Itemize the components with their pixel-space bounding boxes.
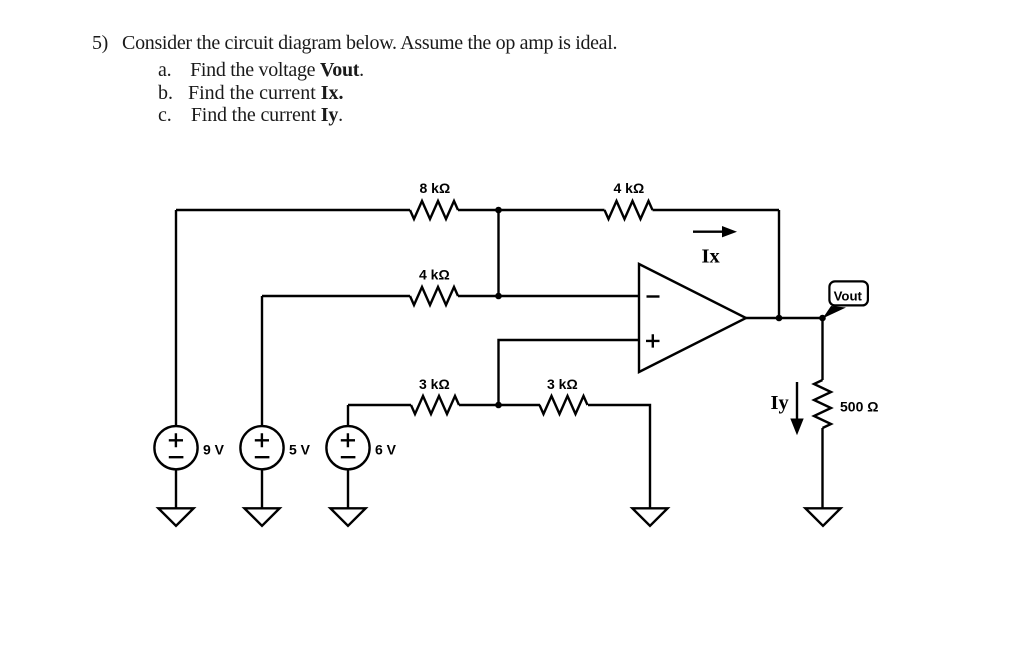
- wire: center vertical joining top node to middle node: [497, 210, 499, 296]
- voltage source V3 6V circle: [326, 426, 369, 469]
- wire: Vout node down to 500 ohm: [821, 318, 823, 380]
- voltage source V1 9V circle: [154, 426, 197, 469]
- resistor R 4k feedback zigzag: [605, 201, 653, 219]
- resistor R 3k right zigzag: [540, 396, 588, 414]
- item a: [158, 59, 364, 82]
- wire: second row left segment from 5V column: [262, 295, 410, 297]
- value label 500 Ohm: [840, 399, 878, 415]
- wire: feedback vertical down to output node: [778, 210, 780, 318]
- value label 4 kOhm feedback: [614, 180, 645, 196]
- svg-text:3 kΩ: 3 kΩ: [547, 376, 578, 392]
- svg-text:Ix: Ix: [702, 245, 721, 267]
- resistor R 500 vertical zigzag: [814, 380, 831, 428]
- value label 9 V: [203, 442, 225, 458]
- wire: output segment: [746, 317, 823, 319]
- svg-text:4 kΩ: 4 kΩ: [419, 267, 450, 283]
- wire: 5V down to ground: [261, 469, 263, 508]
- op-amp plus input sign: [646, 334, 660, 347]
- voltage source V2 5V circle: [240, 426, 283, 469]
- wire: third row middle segment: [459, 404, 540, 406]
- svg-text:5 V: 5 V: [289, 442, 311, 458]
- wire: 6V down to ground: [347, 469, 349, 508]
- wire: 5V up to second row: [261, 296, 263, 426]
- node junction dot third row: [495, 402, 502, 409]
- resistor R 4k input zigzag: [410, 287, 458, 305]
- wire: 9V down to ground: [175, 469, 177, 508]
- item c: [158, 104, 343, 127]
- item b: [158, 82, 344, 105]
- value label 6 V: [375, 442, 397, 458]
- svg-text:9 V: 9 V: [203, 442, 225, 458]
- value label 5 V: [289, 442, 311, 458]
- wire: third row from 6V column: [348, 404, 411, 406]
- node junction dot top center: [495, 207, 502, 214]
- current arrow Ix: [693, 226, 737, 237]
- svg-text:3 kΩ: 3 kΩ: [419, 376, 450, 392]
- current label Iy: [771, 392, 790, 414]
- svg-text:6 V: 6 V: [375, 442, 397, 458]
- resistor R 3k left zigzag: [411, 396, 459, 414]
- wire: top row middle segment: [458, 209, 605, 211]
- current arrow Iy: [790, 382, 803, 435]
- value label 8 kOhm: [420, 180, 451, 196]
- svg-text:8 kΩ: 8 kΩ: [420, 180, 451, 196]
- wire: below 500 ohm to ground: [821, 428, 823, 508]
- op-amp minus input sign: [647, 295, 660, 297]
- ground below 500 ohm: [805, 508, 840, 526]
- node Vout junction dot: [819, 315, 826, 322]
- ground below 5V: [244, 508, 279, 526]
- wire: 6V up to third row: [347, 405, 349, 426]
- wire: top row left segment from 9V column to 8k resistor: [176, 209, 410, 211]
- wire: vertical to noninverting input: [499, 340, 640, 405]
- wire: third row right segment and drop to ground: [588, 405, 650, 508]
- svg-text:Vout: Vout: [834, 288, 863, 303]
- ground below 6V: [330, 508, 365, 526]
- node junction dot middle: [495, 293, 502, 300]
- svg-text:500 Ω: 500 Ω: [840, 399, 878, 415]
- op-amp U1 triangle: [639, 264, 746, 372]
- wire: top row right segment to feedback corner: [653, 209, 780, 211]
- callout Vout box: [823, 281, 868, 318]
- svg-text:4 kΩ: 4 kΩ: [614, 180, 645, 196]
- wire: 9V up to top row: [175, 210, 177, 426]
- resistor R 8k zigzag: [410, 201, 458, 219]
- wire: second row right segment to inverting input: [458, 295, 639, 297]
- node junction dot at feedback/output: [776, 315, 783, 322]
- value label 3 kOhm right: [547, 376, 578, 392]
- svg-text:Iy: Iy: [771, 392, 790, 414]
- value label 3 kOhm left: [419, 376, 450, 392]
- ground below 9V: [158, 508, 193, 526]
- current label Ix: [702, 245, 721, 267]
- problem statement line: [92, 32, 617, 55]
- value label 4 kOhm input: [419, 267, 450, 283]
- ground below right 3k column: [632, 508, 667, 526]
